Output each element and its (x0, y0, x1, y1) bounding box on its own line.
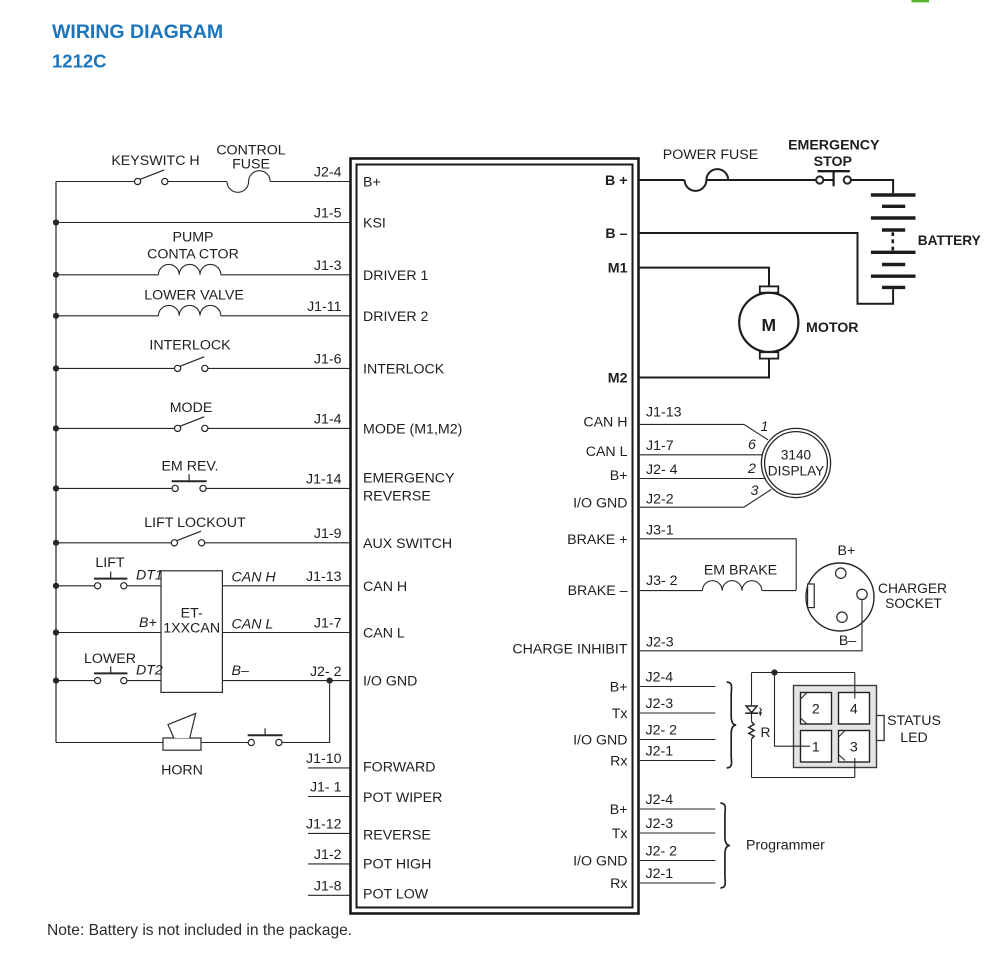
wire pin 3 to bottom (854, 758, 856, 778)
svg-text:I/O GND: I/O GND (573, 733, 627, 749)
coil L3 EM BRAKE (702, 581, 761, 591)
wire bus down to horn (56, 742, 163, 744)
connector pin 4 cavity (839, 693, 870, 725)
battery BT1 long plate 4 (871, 275, 916, 278)
connector pin 2 cavity (801, 693, 832, 725)
svg-text:BRAKE –: BRAKE – (568, 583, 628, 599)
svg-text:LOWER VALVE: LOWER VALVE (144, 288, 244, 304)
svg-text:4: 4 (850, 702, 858, 718)
svg-text:J1-13: J1-13 (306, 569, 342, 585)
push button S6 LIFT (94, 572, 127, 589)
svg-text:J1-11: J1-11 (307, 299, 342, 315)
svg-text:6: 6 (748, 437, 756, 453)
junction dot mode row (53, 425, 59, 431)
svg-text:B+: B+ (610, 680, 628, 696)
svg-text:DISPLAY: DISPLAY (768, 464, 824, 479)
wire J3-2 to em brake coil (639, 590, 703, 592)
horn LS1 bell (168, 713, 196, 738)
svg-text:INTERLOCK: INTERLOCK (149, 338, 231, 354)
svg-text:BRAKE +: BRAKE + (567, 532, 627, 548)
wire charge inhibit to charger (639, 600, 863, 651)
wire status stub J2-2 y739.5 (639, 739, 716, 741)
svg-text:J1-5: J1-5 (314, 206, 342, 222)
svg-text:CAN H: CAN H (583, 414, 627, 430)
svg-text:FUSE: FUSE (232, 157, 270, 173)
battery BT1 short plate 2 (882, 228, 905, 231)
svg-text:J2- 2: J2- 2 (646, 723, 678, 739)
junction dot LED top (771, 669, 777, 675)
wire LED branch top (752, 672, 855, 674)
svg-text:B+: B+ (139, 615, 157, 631)
svg-text:M: M (762, 315, 777, 335)
LED D1 cathode bar (745, 712, 758, 714)
horn LS1 body (163, 738, 201, 750)
svg-text:B+: B+ (363, 175, 381, 191)
svg-text:J2-3: J2-3 (646, 696, 674, 712)
wire lift button to DT1 (127, 585, 161, 587)
svg-text:CHARGER: CHARGER (878, 581, 947, 596)
connector pin 3 cavity (839, 731, 870, 763)
LED D1 triangle (746, 706, 757, 713)
switch S1 KEYSWITCH (135, 170, 168, 185)
wire em rev to J1-14 (206, 487, 350, 489)
svg-text:EMERGENCY: EMERGENCY (788, 138, 880, 154)
wire programmer stub J2-1 y883.0 (639, 882, 716, 884)
svg-text:3: 3 (751, 483, 759, 499)
svg-text:B–: B– (232, 663, 249, 679)
svg-text:J2-1: J2-1 (646, 744, 674, 760)
battery BT1 short plate 3 (882, 263, 905, 266)
svg-text:REVERSE: REVERSE (363, 828, 431, 844)
status LED connector tab (877, 716, 885, 741)
motor M1 bottom brush (760, 352, 779, 358)
svg-text:CAN H: CAN H (232, 570, 277, 586)
svg-text:MODE: MODE (170, 400, 213, 416)
svg-text:ET-: ET- (181, 606, 203, 622)
junction dot pump contactor row (53, 272, 59, 278)
wire horn button to junction (282, 684, 330, 743)
wire module CAN L to J1-7 (222, 632, 350, 634)
wire LED branch bottom (752, 777, 855, 779)
svg-text:J2-3: J2-3 (646, 634, 674, 650)
svg-text:2: 2 (812, 702, 820, 718)
wire stub J1-1 (308, 796, 351, 798)
charger socket pin top (836, 568, 846, 578)
svg-text:M1: M1 (608, 261, 628, 277)
svg-text:J2- 2: J2- 2 (310, 664, 342, 680)
svg-text:DT1: DT1 (136, 568, 163, 584)
svg-text:Rx: Rx (610, 876, 627, 892)
wire stub J1-2 (308, 863, 351, 865)
svg-text:Tx: Tx (612, 706, 628, 722)
brace status group (727, 682, 737, 768)
svg-text:Rx: Rx (610, 754, 627, 770)
coil L1 PUMP CONTACTOR (158, 264, 220, 274)
wire programmer stub J2-3 y833.0 (639, 832, 716, 834)
logo fragment top right (912, 0, 930, 2)
status LED connector shell (794, 686, 877, 768)
wire lower valve to J1-11 (221, 315, 351, 317)
wire em brake coil to loop (762, 590, 796, 592)
display U2 inner circle (765, 432, 828, 495)
motor M1 top brush (760, 286, 779, 292)
fuse F2 POWER FUSE (685, 169, 729, 191)
push button S8 HORN (248, 728, 283, 745)
svg-text:CAN L: CAN L (232, 617, 274, 633)
wire bus to lift button (56, 585, 95, 587)
wire module CAN H to J1-13 (222, 585, 350, 587)
svg-text:J1-10: J1-10 (306, 751, 342, 767)
wire left supply bus (55, 182, 57, 743)
svg-text:J2-4: J2-4 (646, 792, 674, 808)
svg-text:B +: B + (605, 173, 627, 189)
battery BT1 long plate 3 (871, 251, 916, 254)
svg-text:Note: Battery is not included: Note: Battery is not included in the pac… (47, 922, 352, 939)
motor M1 housing (739, 293, 798, 352)
battery BT1 long plate 2 (871, 216, 916, 219)
wire status stub J2-4 y686.5 (639, 686, 716, 688)
wire bus to lower valve (56, 315, 158, 317)
connector pin 2 notches (801, 693, 808, 725)
connector pin 1 cavity (801, 731, 832, 763)
svg-text:J1-14: J1-14 (306, 472, 342, 488)
svg-text:INTERLOCK: INTERLOCK (363, 361, 445, 377)
svg-text:J2-4: J2-4 (646, 670, 674, 686)
svg-text:LIFT LOCKOUT: LIFT LOCKOUT (144, 515, 246, 531)
svg-text:J1- 1: J1- 1 (310, 780, 342, 796)
LED D1 sense arrow (759, 708, 762, 717)
wire M1 to motor (639, 268, 770, 287)
svg-text:I/O GND: I/O GND (363, 674, 417, 690)
svg-text:R: R (761, 725, 771, 740)
wire LED junction to pin 1 (775, 673, 811, 747)
wire estop to battery (851, 180, 893, 193)
wire stub J1-12 (308, 832, 351, 834)
junction dot em rev row (53, 485, 59, 491)
svg-text:Programmer: Programmer (746, 838, 825, 854)
svg-text:J2-2: J2-2 (646, 492, 674, 508)
wire J1-13 to display pin 1 (639, 424, 769, 440)
svg-text:REVERSE: REVERSE (363, 489, 431, 505)
svg-text:CHARGE INHIBIT: CHARGE INHIBIT (512, 642, 627, 658)
wire stub J1-10 (308, 767, 351, 769)
controller U1 outer border (351, 159, 639, 914)
svg-text:CAN H: CAN H (363, 579, 407, 595)
wire bus to lower button (56, 680, 95, 682)
battery BT1 cell break dashes (891, 232, 894, 251)
svg-text:EM REV.: EM REV. (161, 459, 218, 475)
wire pump contactor to J1-3 (221, 274, 351, 276)
wire control fuse to J2-4 (270, 181, 350, 183)
wire KSI row (56, 222, 351, 224)
svg-text:MODE (M1,M2): MODE (M1,M2) (363, 421, 462, 437)
wire keyswitch row segment (56, 181, 134, 183)
wire programmer stub J2-4 y809.0 (639, 808, 716, 810)
wire keyswitch to control fuse (168, 181, 227, 183)
junction dot interlock row (53, 365, 59, 371)
charger socket body (806, 563, 874, 631)
junction dot lower row (53, 678, 59, 684)
push button S9 EMERGENCY STOP (816, 171, 851, 186)
wire bus to module B+ (56, 632, 161, 634)
switch S5 LIFT LOCKOUT (171, 531, 204, 546)
svg-text:DRIVER 2: DRIVER 2 (363, 309, 429, 325)
junction dot b+ module row (53, 629, 59, 635)
resistor R1 zigzag (749, 722, 754, 739)
svg-text:CAN L: CAN L (586, 444, 628, 460)
svg-text:J3- 2: J3- 2 (646, 573, 678, 589)
svg-text:J2-3: J2-3 (646, 816, 674, 832)
wire bus to em rev button (56, 487, 172, 489)
svg-text:M2: M2 (608, 371, 628, 387)
svg-text:J2-4: J2-4 (314, 165, 342, 181)
svg-text:DT2: DT2 (136, 663, 163, 679)
junction dot lift lockout row (53, 540, 59, 546)
display U2 outer circle (761, 428, 830, 497)
svg-text:HORN: HORN (161, 763, 203, 779)
brace programmer group (720, 803, 730, 888)
battery BT1 short plate 1 (882, 205, 905, 208)
wire bus to interlock switch (56, 367, 174, 369)
svg-text:I/O GND: I/O GND (573, 854, 627, 870)
coil L2 LOWER VALVE (158, 305, 220, 315)
svg-text:POT HIGH: POT HIGH (363, 856, 431, 872)
battery BT1 long plate 1 (871, 193, 916, 196)
wire J2-2 to display pin 3 (639, 489, 772, 507)
svg-text:CAN L: CAN L (363, 626, 405, 642)
wire horn to horn button (201, 742, 248, 744)
wire interlock to J1-6 (208, 367, 351, 369)
svg-text:J2- 4: J2- 4 (646, 462, 678, 478)
svg-text:1XXCAN: 1XXCAN (163, 621, 220, 637)
wire J2-4 to display pin 2 (639, 478, 765, 480)
svg-text:LIFT: LIFT (95, 555, 124, 571)
svg-text:LOWER: LOWER (84, 651, 136, 667)
svg-text:J1-7: J1-7 (646, 438, 674, 454)
charger socket key notch (808, 584, 815, 608)
svg-text:J3-1: J3-1 (646, 522, 674, 538)
svg-text:LED: LED (900, 730, 928, 746)
wire J1-7 to display pin 6 (639, 454, 763, 456)
wire status stub J2-3 y713.0 (639, 712, 716, 714)
svg-text:STATUS: STATUS (887, 713, 941, 729)
wire top to pin 4 (854, 673, 856, 699)
svg-text:FORWARD: FORWARD (363, 760, 436, 776)
wire power fuse to estop (706, 179, 816, 181)
wire LED vertical upper (751, 673, 753, 706)
svg-text:STOP: STOP (814, 154, 852, 170)
push button S7 LOWER (94, 666, 127, 683)
svg-text:EMERGENCY: EMERGENCY (363, 471, 455, 487)
battery BT1 short plate 4 (882, 286, 905, 289)
svg-text:POT WIPER: POT WIPER (363, 790, 442, 806)
wire status stub J2-1 y760.5 (639, 760, 716, 762)
svg-text:DRIVER 1: DRIVER 1 (363, 268, 429, 284)
svg-text:CONTA CTOR: CONTA CTOR (147, 247, 239, 263)
wire J3-1 brake loop (639, 539, 797, 590)
svg-text:B+: B+ (838, 543, 856, 559)
wire module B- to J2-2 (222, 680, 350, 682)
svg-text:J1-13: J1-13 (646, 405, 682, 421)
wire bus to lift lockout (56, 542, 171, 544)
svg-text:SOCKET: SOCKET (885, 596, 942, 611)
svg-text:EM BRAKE: EM BRAKE (704, 563, 777, 579)
wire B+ to power fuse (639, 179, 685, 181)
charger socket pin right (857, 589, 867, 599)
wire bus to mode switch (56, 427, 174, 429)
svg-text:J1-12: J1-12 (306, 817, 342, 833)
svg-text:Tx: Tx (612, 826, 628, 842)
junction dot KSI row (53, 219, 59, 225)
svg-text:J2-1: J2-1 (646, 866, 674, 882)
module ET-1XXCAN box (161, 571, 222, 693)
svg-text:2: 2 (747, 461, 756, 477)
wire M2 to motor (639, 359, 770, 378)
svg-text:AUX SWITCH: AUX SWITCH (363, 536, 452, 552)
svg-text:B–: B– (839, 633, 856, 649)
wire LED to resistor (751, 713, 753, 722)
svg-text:J2- 2: J2- 2 (646, 844, 678, 860)
svg-text:PUMP: PUMP (173, 230, 214, 246)
wire lower button to DT2 (127, 680, 161, 682)
svg-text:KSI: KSI (363, 216, 386, 232)
push button S4 EM REV (172, 474, 207, 491)
svg-text:POWER FUSE: POWER FUSE (663, 147, 758, 163)
wire programmer stub J2-2 y860.5 (639, 860, 716, 862)
svg-text:3140: 3140 (781, 448, 812, 463)
svg-text:MOTOR: MOTOR (806, 320, 859, 336)
svg-text:B+: B+ (610, 802, 628, 818)
svg-text:B+: B+ (610, 468, 628, 484)
junction dot horn takeoff (327, 678, 333, 684)
controller U1 inner border (357, 165, 633, 908)
svg-text:I/O GND: I/O GND (573, 496, 627, 512)
switch S2 INTERLOCK (175, 357, 208, 372)
wire mode to J1-4 (208, 427, 351, 429)
svg-text:KEYSWITC H: KEYSWITC H (111, 153, 199, 169)
svg-text:3: 3 (850, 740, 858, 756)
svg-text:J1-6: J1-6 (314, 352, 342, 368)
wire lift lockout to J1-9 (205, 542, 351, 544)
connector pin 3 notches (839, 731, 846, 761)
wire B- to battery bottom (639, 233, 894, 304)
switch S3 MODE (175, 417, 208, 432)
svg-text:J1-7: J1-7 (314, 616, 342, 632)
svg-text:J1-9: J1-9 (314, 526, 342, 542)
fuse F1 CONTROL FUSE (227, 171, 270, 193)
wire stub J1-8 (308, 894, 351, 896)
svg-text:J1-2: J1-2 (314, 847, 342, 863)
svg-text:WIRING DIAGRAM: WIRING DIAGRAM (52, 21, 223, 43)
charger socket pin bottom (837, 612, 847, 622)
svg-text:J1-8: J1-8 (314, 879, 342, 895)
svg-text:1: 1 (761, 419, 769, 435)
svg-text:POT LOW: POT LOW (363, 887, 429, 903)
wire bus to pump contactor (56, 274, 158, 276)
svg-text:J1-4: J1-4 (314, 412, 342, 428)
svg-text:B –: B – (605, 226, 627, 242)
svg-text:J1-3: J1-3 (314, 258, 342, 274)
wire resistor to LED bottom (751, 739, 753, 778)
svg-text:1212C: 1212C (52, 51, 107, 72)
junction dot lower valve row (53, 313, 59, 319)
junction dot lift row (53, 583, 59, 589)
svg-text:1: 1 (812, 740, 820, 756)
svg-text:BATTERY: BATTERY (918, 233, 981, 248)
